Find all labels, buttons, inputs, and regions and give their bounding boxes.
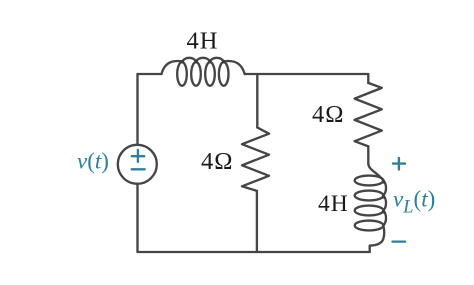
svg-text:4H: 4H (318, 191, 349, 217)
voltage source plus sign (132, 150, 145, 169)
polarity plus (right inductor) (393, 158, 405, 170)
wire: right branch vertical stub below top wire (367, 74, 369, 83)
junction knots right coil (382, 180, 385, 213)
wire: right branch between resistor and inductor (367, 146, 369, 163)
junction knots top inductor (181, 60, 225, 63)
inductor L1 4H (top horizontal coil) (162, 58, 245, 86)
resistor R1 4ohm (middle vertical zigzag) (242, 128, 269, 191)
svg-text:4Ω: 4Ω (312, 101, 344, 128)
svg-text:4H: 4H (187, 28, 219, 55)
voltage source V1 circle (118, 145, 157, 184)
resistor R2 4ohm (right vertical zigzag) (355, 83, 382, 146)
polarity minus (right inductor) (393, 240, 406, 242)
voltage source minus sign (132, 168, 145, 170)
wire: left vertical top (source to top-left corner) (136, 74, 138, 145)
svg-text:vL(t): vL(t) (393, 187, 435, 218)
inductor L2 4H (right vertical coil) (355, 164, 386, 252)
wire: middle branch vertical from top wire down to resistor (256, 74, 258, 128)
wire: top horizontal from inductor to right branch (245, 73, 369, 75)
wire: bottom horizontal (138, 251, 370, 253)
svg-text:v(t): v(t) (77, 148, 109, 173)
wire: left vertical bottom (source to bottom wire) (136, 184, 138, 252)
svg-text:4Ω: 4Ω (201, 148, 233, 175)
wire: middle branch vertical from resistor to bottom wire (256, 191, 258, 252)
wire: top-left horizontal to inductor (138, 73, 162, 75)
